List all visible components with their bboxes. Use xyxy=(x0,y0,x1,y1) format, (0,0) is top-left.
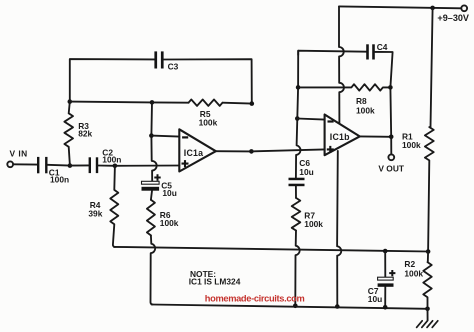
svg-text:100n: 100n xyxy=(102,155,121,165)
wire C1 to node A xyxy=(48,164,70,167)
node IC1b inverting junction xyxy=(295,116,300,121)
node B junction xyxy=(113,164,118,169)
resistor R3 xyxy=(64,102,73,166)
wire V- to ground rail with hop xyxy=(337,151,341,307)
wire node A to C2 xyxy=(70,164,89,166)
svg-text:10u: 10u xyxy=(162,188,176,198)
node R3 top junction xyxy=(68,99,73,104)
svg-text:100k: 100k xyxy=(160,218,179,228)
resistor R6 xyxy=(147,200,155,236)
resistor R4 xyxy=(110,166,118,247)
resistor R2 xyxy=(423,252,431,309)
node A junction xyxy=(68,163,73,168)
capacitor C3 xyxy=(154,51,163,68)
node R5/C3 right junction xyxy=(250,101,255,106)
node R7 ground junction xyxy=(293,304,298,309)
capacitor C2 xyxy=(89,157,99,173)
wire ground lead xyxy=(427,309,429,321)
wire C6 to R7 xyxy=(295,186,297,198)
node R2 ground junction xyxy=(425,307,430,312)
node feedback mid junction xyxy=(150,100,155,105)
wire node B to IC1a + input xyxy=(115,165,179,167)
svg-text:homemade-circuits.com: homemade-circuits.com xyxy=(205,293,305,303)
node R8 left junction xyxy=(296,85,301,90)
wire IC1a output xyxy=(216,150,252,152)
svg-text:+9–30V: +9–30V xyxy=(437,13,469,23)
wire C7 bottom lead xyxy=(384,287,386,308)
ground symbol xyxy=(417,321,438,328)
svg-text:100k: 100k xyxy=(304,219,323,229)
node VIN terminal xyxy=(7,161,13,167)
wire to IC1b - input xyxy=(297,119,324,120)
capacitor C1 xyxy=(37,157,48,173)
svg-text:39k: 39k xyxy=(88,208,102,218)
node C7 top junction xyxy=(383,249,388,254)
node V- ground junction xyxy=(335,304,340,309)
resistor R5 xyxy=(189,100,223,106)
node rail1 right junction xyxy=(426,249,431,254)
node VOUT terminal xyxy=(388,154,394,160)
svg-text:100k: 100k xyxy=(404,268,423,278)
svg-text:IC1b: IC1b xyxy=(330,132,350,142)
op-amp IC1b xyxy=(325,115,360,156)
capacitor C6 xyxy=(289,178,305,187)
wire feedback line left xyxy=(70,101,152,104)
node IC1b output junction xyxy=(389,135,394,140)
node C7 ground junction xyxy=(383,305,388,310)
capacitor C5 polarized xyxy=(142,174,161,190)
wire inverting vertical with hop over + line xyxy=(151,102,156,181)
wire stage2 feedback vertical with hop xyxy=(296,51,301,178)
wire R5 to output node xyxy=(223,102,252,105)
op-amp IC1a xyxy=(179,129,216,171)
svg-text:100k: 100k xyxy=(402,140,421,150)
wire C3 right to output vertical xyxy=(164,59,252,103)
wire IC1a output to IC1b + input xyxy=(251,149,324,151)
svg-text:100k: 100k xyxy=(199,117,218,127)
wire C5 to R6 xyxy=(151,191,152,200)
wire C7 top lead xyxy=(384,251,386,277)
wire to IC1a - input xyxy=(151,136,179,137)
wire VIN to C1 xyxy=(13,163,37,165)
svg-text:C4: C4 xyxy=(377,42,388,52)
wire bias rail1 xyxy=(114,247,428,252)
svg-text:82k: 82k xyxy=(78,128,92,138)
wire V+ supply with hops xyxy=(339,7,344,123)
node IC1a inverting junction xyxy=(149,133,154,138)
svg-text:100n: 100n xyxy=(50,175,69,185)
svg-text:C3: C3 xyxy=(168,61,179,71)
svg-text:IC1a: IC1a xyxy=(184,148,203,158)
wire supply rail top xyxy=(339,6,461,8)
wire output to VOUT terminal xyxy=(390,137,392,154)
node IC1a output junction xyxy=(249,149,254,154)
node supply terminal xyxy=(461,5,467,11)
wire R6 bottom hop over rail1 then to ground rail corner xyxy=(151,235,156,304)
resistor R1 xyxy=(425,8,434,252)
wire stage2 feedback top xyxy=(298,51,366,55)
capacitor C4 xyxy=(366,44,375,59)
wire R7 bottom hop over rail1 to rail2 xyxy=(295,231,299,306)
svg-text:10u: 10u xyxy=(299,167,313,177)
svg-text:IC1 IS LM324: IC1 IS LM324 xyxy=(189,276,241,286)
wire C3 branch left vertical xyxy=(70,59,155,102)
resistor R8 xyxy=(298,84,390,90)
wire C4 right down to output xyxy=(375,52,393,137)
wire ground rail2 xyxy=(152,305,428,309)
wire feedback to R5 xyxy=(152,101,189,103)
svg-text:10u: 10u xyxy=(368,294,382,304)
svg-text:V OUT: V OUT xyxy=(378,164,404,174)
svg-text:100k: 100k xyxy=(356,106,375,116)
svg-text:R8: R8 xyxy=(356,96,367,106)
resistor R7 xyxy=(292,198,301,231)
wire C2 to node B xyxy=(98,165,115,167)
capacitor C7 polarized xyxy=(378,270,396,287)
node supply R1 junction xyxy=(430,6,435,11)
svg-text:V IN: V IN xyxy=(10,148,28,158)
node R8 right junction xyxy=(388,85,393,90)
wire IC1b output xyxy=(360,135,392,137)
